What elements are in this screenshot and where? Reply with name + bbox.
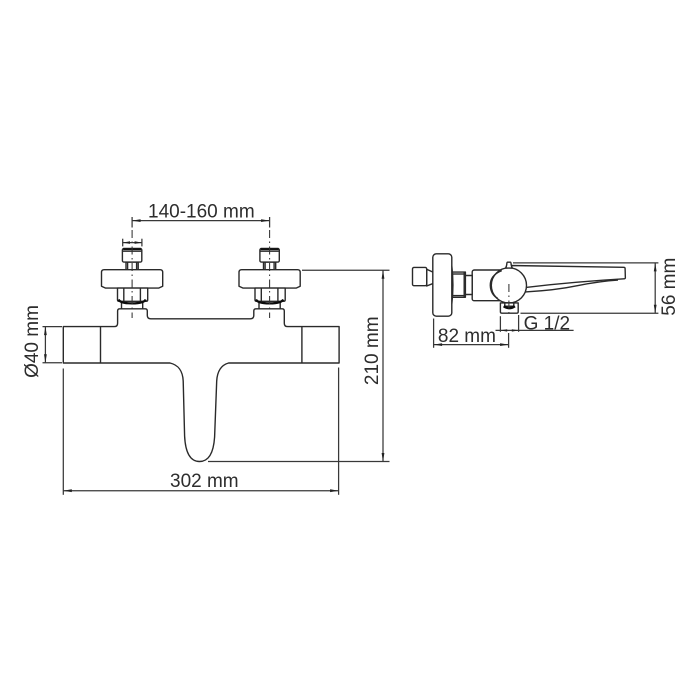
right valve assembly [239,249,300,309]
left cap line [100,327,102,363]
thread pipe [452,272,466,297]
left valve centerline [131,230,133,318]
svg-text:140-160 mm: 140-160 mm [148,201,255,222]
svg-text:56 mm: 56 mm [659,258,680,316]
top nut [122,249,141,263]
crescent on ball [490,271,502,299]
dimension 82 mm [433,319,435,348]
indicator tab [506,262,513,268]
neck [126,262,138,270]
lever underside crease [526,280,619,292]
outlet [500,303,518,313]
left valve assembly (inlet connector, escutcheon, union nut) [102,249,163,309]
right cap line [301,327,303,363]
dimension D40 mm [43,326,63,328]
cone between hex and flange [427,269,434,286]
wall flange [433,254,452,316]
right valve centerline [269,230,271,318]
lever [505,266,625,288]
nut dark chamfer band [119,300,146,304]
dimension 140-160 mm [131,217,133,228]
svg-text:302 mm: 302 mm [170,471,239,492]
small cylinder [465,276,472,295]
valve body box [472,270,508,301]
cylinder below hex nut [122,301,143,309]
dimension G 1/2 [499,316,501,332]
hex head [413,267,427,285]
svg-text:G 1/2: G 1/2 [524,313,570,334]
svg-text:Ø40 mm: Ø40 mm [22,305,43,378]
svg-text:82 mm: 82 mm [438,326,496,347]
side centerline [508,284,510,317]
svg-text:210 mm: 210 mm [362,316,383,385]
dimension 56 mm [513,262,658,264]
ball joint [491,268,526,303]
dimension 210 mm [302,269,390,271]
escutcheon [102,270,163,288]
dimension 302 mm [62,369,64,495]
faucet body with spout [63,309,339,462]
hex union nut [118,288,148,301]
eccentric adjustment ticks above left nut [122,239,124,247]
